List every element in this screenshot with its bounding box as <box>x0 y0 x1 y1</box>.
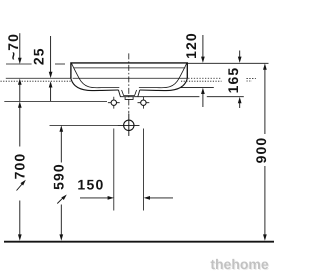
arrow 150 right (pointing left, from outside) <box>144 196 150 200</box>
svg-text:700: 700 <box>11 153 27 180</box>
dim 700 stem lower <box>19 201 21 235</box>
dotted line left <box>1 80 73 82</box>
dim 25 stem top <box>50 36 52 72</box>
drain inner cup <box>122 90 137 96</box>
basin bowl silhouette curve left <box>71 78 119 91</box>
arrow 25 up <box>49 81 53 87</box>
extension line 150 right <box>142 129 144 211</box>
arrow 590 leader head <box>61 195 67 201</box>
dim 700 leader line <box>17 184 23 191</box>
arrow 120 up <box>201 88 205 94</box>
arrow 590 bottom <box>59 234 63 240</box>
centerline vertical dash-dot <box>128 53 130 113</box>
basin bowl silhouette curve right <box>140 78 188 91</box>
arrow 150 right outside <box>108 196 114 200</box>
basin corner diagonal / inner bowl line right <box>139 63 187 87</box>
dim 590 leader line <box>57 198 63 204</box>
svg-text:thehome: thehome <box>210 256 269 272</box>
rim extension line right <box>187 62 268 64</box>
dim 120 stem bottom <box>202 94 204 107</box>
dim 900 stem lower <box>264 166 266 235</box>
dim 25 stem bottom <box>50 87 52 101</box>
extension line 150 left <box>113 129 115 211</box>
svg-text:590: 590 <box>51 163 67 190</box>
basin rim top and side edges <box>71 63 187 78</box>
svg-text:165: 165 <box>225 67 241 94</box>
basin corner diagonal / inner bowl line left <box>72 63 120 87</box>
dim ~70 stem top <box>19 33 21 58</box>
dim 165 stem top <box>239 51 241 58</box>
dim 165 stem bottom <box>239 103 241 108</box>
extension line 590 (pipe center) <box>50 124 140 126</box>
arrow 900 bottom <box>263 234 267 240</box>
extension line ~70 top left a <box>6 63 32 65</box>
svg-text:~70: ~70 <box>5 33 21 60</box>
arrow ~70 up <box>18 79 22 85</box>
arrow 900 top <box>263 63 267 69</box>
arrow 120 down <box>201 57 205 63</box>
dim 150 line right tail <box>150 197 173 199</box>
drain stub <box>125 97 133 100</box>
dotted line right <box>181 80 222 82</box>
counter line right dotted <box>188 77 221 79</box>
dim 590 stem lower <box>60 205 62 235</box>
arrow ~70 down <box>18 58 22 64</box>
arrow 165 down <box>238 57 242 63</box>
counter line through basin interior <box>73 77 187 79</box>
dim 120 stem top <box>202 35 204 57</box>
basin inner rim line <box>74 67 185 69</box>
arrow 700 leader head <box>20 180 25 186</box>
fixing hole left <box>108 97 120 109</box>
floor line <box>4 241 274 243</box>
fixing hole right <box>138 97 150 109</box>
arrow 700 top <box>18 102 22 108</box>
arrow 165 up <box>238 97 242 103</box>
arrow 590 top <box>59 125 63 131</box>
dim ~70 stem bottom / 700 stem upper <box>19 84 21 101</box>
drain trapezoid outer <box>118 90 139 97</box>
arrow 700 bottom <box>18 234 22 240</box>
svg-text:25: 25 <box>31 47 47 65</box>
arrow 25 down <box>49 72 53 78</box>
extension line 120 lower <box>181 87 214 89</box>
dim 590 stem upper <box>60 131 62 162</box>
counter line left <box>6 77 71 79</box>
svg-text:900: 900 <box>253 137 269 164</box>
centerline solid through large hole <box>128 114 130 136</box>
dotted line right of 165 upper <box>247 77 256 79</box>
extension line 165 lower (from drain bottom) <box>138 96 244 98</box>
dim 900 stem upper <box>264 69 266 134</box>
dotted line right of 165 lower <box>247 80 253 82</box>
dim 150 line left tail <box>80 197 109 199</box>
dim 700 stem mid <box>19 107 21 146</box>
svg-text:150: 150 <box>77 176 104 192</box>
siphon hole <box>118 114 140 136</box>
extension line ~70 top left b <box>55 63 65 65</box>
extension line 700 (fixing holes level) <box>4 100 107 102</box>
svg-text:120: 120 <box>183 32 199 59</box>
